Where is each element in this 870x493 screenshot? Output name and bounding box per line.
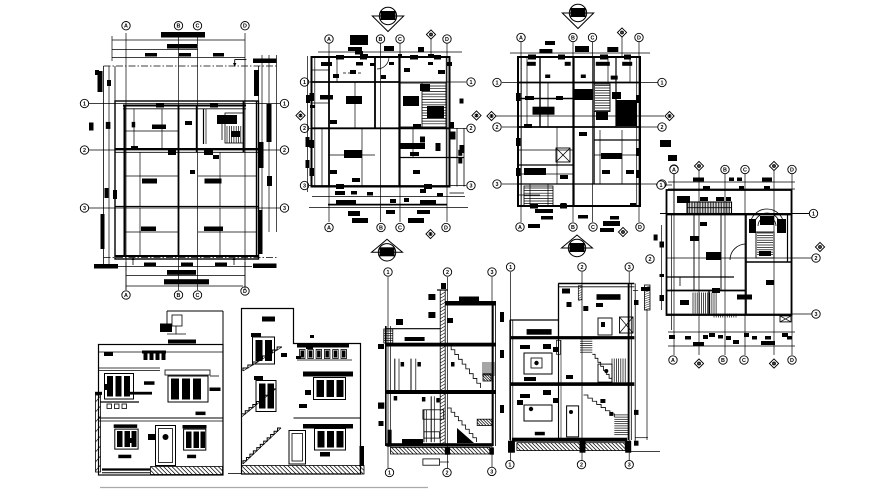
svg-text:3: 3 xyxy=(628,265,631,271)
svg-text:2: 2 xyxy=(580,463,583,469)
plan1 left side annotation bars xyxy=(101,214,105,249)
svg-text:A: A xyxy=(518,225,522,231)
plan4 grid verticals xyxy=(673,174,675,355)
plan3 right annotation line xyxy=(673,173,675,214)
elev2 upper small-window row xyxy=(297,344,349,348)
plan2 extra interior thin lines xyxy=(336,57,338,82)
plan4 grid bubbles top xyxy=(670,165,678,173)
svg-text:B: B xyxy=(571,35,575,41)
sec2 tower hatch column xyxy=(578,286,582,300)
sec2 lower dark bar xyxy=(535,432,545,436)
plan3 interior vertical walls xyxy=(539,57,541,127)
sec1 mid wall cap xyxy=(437,289,448,291)
plan3 room text labels xyxy=(601,153,622,159)
elev2 mid window xyxy=(256,381,276,412)
plan2 dashed line closet xyxy=(343,72,362,74)
svg-text:2: 2 xyxy=(470,126,473,132)
sec2 upper door box xyxy=(598,364,612,382)
svg-text:2: 2 xyxy=(283,148,286,154)
svg-text:A: A xyxy=(672,167,676,173)
sec1 ground slab xyxy=(386,443,491,446)
sec2 tower left wall xyxy=(558,284,560,341)
plan1 entry arrows xyxy=(132,258,134,265)
plan2 top band extra blobs xyxy=(333,74,339,78)
plan4 top dimension xyxy=(668,181,795,183)
plan1 interior thin lines xyxy=(133,109,135,149)
plan3 dark service blob xyxy=(573,89,593,100)
elev1 tower box xyxy=(160,324,172,333)
plan2 outer walls xyxy=(312,57,450,187)
svg-text:2: 2 xyxy=(446,270,449,276)
plan2 door arc xyxy=(377,57,389,69)
plan3 bottom diamond xyxy=(618,227,627,236)
svg-text:D: D xyxy=(790,167,794,173)
sec1 left volume top xyxy=(386,328,440,330)
sec1 stair louver hatch upper xyxy=(482,362,495,364)
plan1 grid bubbles right xyxy=(280,99,288,107)
elev1 vent window row xyxy=(142,351,166,354)
elev1 left boundary hatched pier xyxy=(96,395,101,472)
svg-text:1: 1 xyxy=(496,80,499,86)
elev2 mid-right lintel xyxy=(303,372,353,377)
sec2 ground slab xyxy=(512,438,627,442)
plan1 top-right corner bracket xyxy=(234,60,236,67)
plan4 top band text row xyxy=(680,197,690,201)
sec2 lower door xyxy=(567,406,579,437)
plan2 staircase block xyxy=(400,83,447,127)
plan1 bottom dimension lines xyxy=(118,266,252,268)
sec1 grid bubbles bottom xyxy=(385,468,393,476)
plan1 inner wall top horizontal xyxy=(123,105,246,107)
sec1 lower room floor bar xyxy=(402,439,423,444)
plan3 grid bubbles bottom xyxy=(516,223,524,231)
plan3 top band text blobs xyxy=(527,62,536,66)
elev2 right edge hatch xyxy=(360,446,365,466)
plan1 right terrace bar xyxy=(254,70,259,96)
plan2 side diamonds xyxy=(296,111,305,120)
svg-text:1: 1 xyxy=(661,80,664,86)
sec2 right ground line xyxy=(630,451,660,453)
sec2 grid stems xyxy=(510,272,512,461)
plan4 bottom-left stair hatch xyxy=(692,293,694,314)
plan3 crossed duct box xyxy=(556,148,570,162)
svg-text:3: 3 xyxy=(628,463,631,469)
plan3 staircase treads xyxy=(594,84,610,112)
svg-text:C: C xyxy=(591,35,595,41)
elev1 three squares xyxy=(107,404,112,409)
plan1 outer building wall xyxy=(115,101,259,259)
plan4 wall upper-left xyxy=(667,276,735,278)
sec1 left wall xyxy=(385,326,387,446)
svg-text:B: B xyxy=(571,225,575,231)
plan1 terrace band top xyxy=(114,66,116,101)
svg-text:1: 1 xyxy=(303,80,306,86)
svg-text:1: 1 xyxy=(660,183,663,189)
svg-text:C: C xyxy=(743,167,747,173)
sec1 right wall xyxy=(492,301,494,446)
svg-text:2: 2 xyxy=(661,125,664,131)
svg-text:B: B xyxy=(721,358,725,364)
elev2 door xyxy=(289,431,306,465)
plan4 top diamonds xyxy=(694,161,703,170)
plan4 bottom dimension text xyxy=(669,335,675,339)
plan2 north arrow xyxy=(379,7,396,24)
faint title text row bottom xyxy=(100,487,428,489)
svg-text:B: B xyxy=(723,167,727,173)
sec1 below-ground box xyxy=(423,459,440,465)
elev1 window W2 big xyxy=(165,370,210,375)
plan4 wall row1 xyxy=(667,214,792,216)
svg-text:C: C xyxy=(398,37,402,43)
plan4 bottom diamonds xyxy=(694,359,703,368)
plan2 bottom diamond xyxy=(426,229,435,238)
sec1 text bar upper room xyxy=(405,337,425,341)
plan1 bottom dimension text xyxy=(144,263,156,267)
sec2 room lower bed xyxy=(524,405,552,421)
plan2 grid bubbles left xyxy=(300,78,308,86)
sec2 grid bubbles bottom xyxy=(506,460,514,468)
plan4 porch side bars xyxy=(777,219,786,233)
plan2 grid verticals xyxy=(328,43,330,222)
plan3 outer walls xyxy=(518,57,640,206)
sec2 lower stair ladder xyxy=(614,414,629,416)
elev1 floor band xyxy=(99,367,161,369)
plan4 left margin bars xyxy=(654,235,658,241)
sec1 roof slab right volume xyxy=(445,301,496,306)
svg-text:C: C xyxy=(196,293,200,299)
plan3 bottom rooms thin lines xyxy=(529,184,531,206)
elev2 stairs flight B xyxy=(242,389,276,417)
plan1 right annotation verticals xyxy=(261,55,263,232)
plan2 grid bubbles bottom xyxy=(325,223,333,231)
plan1 plot boundary dash-dot top xyxy=(104,65,278,67)
plan4 grid horizontals xyxy=(660,213,810,215)
plan1 bottom dimension bars xyxy=(94,264,118,269)
svg-text:2: 2 xyxy=(496,125,499,131)
svg-text:C: C xyxy=(398,225,402,231)
sec2 lower stair steps xyxy=(584,395,615,417)
svg-text:A: A xyxy=(519,35,523,41)
sec1 upper stair steps xyxy=(448,345,481,388)
svg-text:C: C xyxy=(591,225,595,231)
sec2 mid wall xyxy=(558,340,560,438)
plan2 wall window sill marks xyxy=(336,55,344,60)
elev2 ground line extension xyxy=(228,473,242,475)
elev2 mid floor line xyxy=(294,417,361,419)
sec1 mid hatched wall xyxy=(440,290,445,446)
svg-text:A: A xyxy=(327,225,331,231)
sec1 left annex bar xyxy=(378,344,384,349)
svg-text:D: D xyxy=(638,225,642,231)
sec2 room labels xyxy=(520,345,530,349)
sec2 left part top xyxy=(510,319,558,321)
svg-text:3: 3 xyxy=(283,206,286,212)
svg-text:B: B xyxy=(379,37,383,43)
sec1 lower stair steps xyxy=(448,408,477,442)
plan3 grid horizontals xyxy=(502,82,658,84)
svg-text:2: 2 xyxy=(83,148,86,154)
plan3 grid bubbles top xyxy=(517,33,525,41)
sec1 footings xyxy=(445,447,450,454)
plan3 top dimension text xyxy=(539,49,552,54)
sec2 upper stair railing hatch xyxy=(611,359,613,383)
elev2 window right-low xyxy=(315,429,346,451)
svg-text:2: 2 xyxy=(581,265,584,271)
plan4 interior walls xyxy=(667,290,747,292)
svg-text:A: A xyxy=(671,358,675,364)
elev1 parapet step lines xyxy=(99,351,224,353)
sec2 slab level2 xyxy=(510,382,635,386)
elev1 small marks xyxy=(196,412,206,416)
plan3 grid bubbles left xyxy=(493,78,501,86)
plan2 room text labels xyxy=(321,62,332,66)
sec2 footings xyxy=(508,441,515,453)
plan1 right annotation bars xyxy=(253,59,277,64)
sec2 ground hatch xyxy=(517,443,625,451)
plan2 plot line left xyxy=(307,56,309,192)
elev1 roof tower xyxy=(167,310,223,312)
elev2 small labels xyxy=(306,345,313,349)
plan4 window hatch band top xyxy=(687,202,732,214)
plan3 interior horizontal walls xyxy=(518,82,640,84)
sec2 room upper bed xyxy=(524,353,552,374)
plan4 grid bubbles bottom xyxy=(669,356,677,364)
plan3 extra interior thin lines xyxy=(526,57,528,127)
svg-text:2: 2 xyxy=(303,126,306,132)
sec2 tower X window xyxy=(620,317,634,333)
sec1 grid bubbles top xyxy=(384,268,392,276)
plan3 stair core dark xyxy=(616,100,637,126)
sec2 lower stair marks xyxy=(600,399,605,403)
sec2 left wall xyxy=(509,320,511,440)
svg-text:B: B xyxy=(177,24,181,30)
plan1 inner wall mid horizontal xyxy=(115,148,259,150)
sec1 upper door frames xyxy=(394,359,396,393)
sec1 slab level2 xyxy=(386,390,496,394)
svg-text:1: 1 xyxy=(470,80,473,86)
sec1 stair hatch patch lower xyxy=(477,419,492,425)
elev2 stairs flight A xyxy=(243,347,282,371)
elev2 window right-mid xyxy=(314,378,346,400)
elev1 mid ledge xyxy=(99,417,224,419)
sec2 left margin bars xyxy=(500,312,504,322)
svg-text:D: D xyxy=(243,24,247,30)
plan2 grid horizontals xyxy=(309,81,466,83)
svg-text:3: 3 xyxy=(470,183,473,189)
plan2 bed furniture xyxy=(346,96,362,104)
plan4 right diamond xyxy=(815,242,824,251)
svg-text:3: 3 xyxy=(491,270,494,276)
elev1 door D1 xyxy=(156,426,176,466)
plan2 grid bubbles right xyxy=(467,78,475,86)
sec2 top dark beam xyxy=(597,294,621,300)
svg-text:1: 1 xyxy=(83,101,86,107)
sec2 hatch column mid-left xyxy=(557,340,561,354)
svg-text:3: 3 xyxy=(815,312,818,318)
svg-text:2: 2 xyxy=(649,257,652,263)
plan1 stair arrow xyxy=(221,118,223,140)
elev2 left upper window xyxy=(253,337,275,364)
sec1 lower door frames xyxy=(423,410,425,442)
plan1 interior vertical walls xyxy=(124,105,126,256)
svg-text:C: C xyxy=(196,24,200,30)
plan1 bottom wall xyxy=(115,255,259,257)
elev2 outline xyxy=(242,309,361,475)
plan1 dashdot bottom xyxy=(104,257,278,259)
plan2 porch lines right xyxy=(456,128,458,186)
svg-text:1: 1 xyxy=(387,270,390,276)
svg-text:3: 3 xyxy=(303,183,306,189)
plan4 bed blob xyxy=(706,252,721,260)
elev2 right-low lintel xyxy=(303,424,353,429)
svg-text:3: 3 xyxy=(490,469,493,475)
plan1 door window marks xyxy=(131,146,138,150)
elev1 left plinth xyxy=(102,468,150,470)
sec2 right wall xyxy=(628,284,630,441)
plan1 grid bubbles top xyxy=(122,22,130,30)
plan1 grid bubbles bottom xyxy=(122,291,130,299)
svg-text:A: A xyxy=(327,37,331,43)
plan4 room labels xyxy=(737,295,752,300)
svg-text:1: 1 xyxy=(509,265,512,271)
sec2 right wall2 xyxy=(634,284,636,441)
sec1 ground hatch xyxy=(391,447,490,454)
sec2 right margin hatched column xyxy=(645,285,651,310)
sec1 parapet bar xyxy=(459,297,479,302)
plan1 top dimension text xyxy=(161,32,205,38)
plan4 entry step box bottom right xyxy=(780,316,791,322)
elev1 window W4 xyxy=(183,425,207,429)
svg-text:2: 2 xyxy=(815,256,818,262)
plan4 entry porch curved steps xyxy=(754,213,780,226)
svg-text:1: 1 xyxy=(812,211,815,217)
plan2 south arrow xyxy=(378,244,395,261)
plan4 door arc mid xyxy=(730,244,746,260)
svg-text:D: D xyxy=(445,37,449,43)
svg-text:D: D xyxy=(790,358,794,364)
sec2 tower door box xyxy=(598,318,612,335)
sec2 shelf bar upper xyxy=(527,329,552,335)
svg-text:D: D xyxy=(637,35,641,41)
plan2 right margin blobs xyxy=(460,99,464,104)
elev1 outline xyxy=(99,345,224,476)
sec1 left ladder window xyxy=(384,329,393,343)
plan3 grid bubbles right xyxy=(658,78,666,86)
plan1 wall at grid row3 xyxy=(115,206,259,208)
svg-text:3: 3 xyxy=(496,182,499,188)
svg-text:C: C xyxy=(742,358,746,364)
elev1 ground hatch xyxy=(151,467,223,475)
sec2 grid bubbles top xyxy=(506,263,514,271)
svg-text:B: B xyxy=(177,293,181,299)
sec2 tower roof xyxy=(558,283,634,285)
plan1 row grid horizontals xyxy=(89,103,280,105)
plan1 grid bubbles left xyxy=(80,99,88,107)
plan3 bottom-left stair treads xyxy=(524,186,553,206)
svg-text:B: B xyxy=(379,225,383,231)
elev1 window W1 left xyxy=(105,374,134,400)
svg-text:1: 1 xyxy=(388,470,391,476)
svg-text:A: A xyxy=(124,293,128,299)
sec2 tower marks xyxy=(567,302,572,307)
svg-text:2: 2 xyxy=(446,470,449,476)
plan1 left gate bar xyxy=(98,71,103,92)
elev1 left small window xyxy=(104,352,113,356)
sec2 slab level1 xyxy=(510,336,635,339)
plan2 interior horizontal walls xyxy=(312,81,400,83)
plan4 left bubble xyxy=(657,181,665,189)
plan1 column grid verticals xyxy=(125,33,127,290)
plan3 grid verticals xyxy=(520,42,522,222)
plan2 top dimension text xyxy=(350,35,368,45)
elev2 ground hatch xyxy=(242,466,365,475)
plan3 bottom dimension text xyxy=(535,209,553,213)
plan4 right bubbles xyxy=(809,209,817,217)
plan1 staircase hatch xyxy=(225,113,244,143)
plan3 top diamond xyxy=(617,28,626,37)
plan2 top diamond marker xyxy=(426,30,435,39)
plan2 grid bubbles top xyxy=(325,35,333,43)
svg-text:1: 1 xyxy=(283,101,286,107)
svg-text:D: D xyxy=(444,225,448,231)
plan2 side annotation bars xyxy=(306,137,310,147)
sec1 mid wall blobs xyxy=(428,294,435,300)
plan4 bottom window hatch xyxy=(713,314,715,318)
elev1 window W2 lintel xyxy=(168,340,196,344)
elev1 window W1 sill xyxy=(100,401,139,403)
plan1 top dimension lines xyxy=(112,39,245,41)
elev2 stairs flight C xyxy=(243,428,281,464)
plan3 south arrow xyxy=(568,239,585,256)
sec1 diag patch upper xyxy=(483,374,491,381)
svg-text:A: A xyxy=(124,24,128,30)
sec1 slab level1 xyxy=(386,343,496,347)
plan3 bed furniture xyxy=(533,107,555,115)
plan1 room label texts xyxy=(152,125,166,130)
plan3 right margin bars xyxy=(660,140,671,147)
plan2 interior vertical walls xyxy=(328,57,330,187)
plan4 table blob xyxy=(759,251,771,256)
svg-text:3: 3 xyxy=(83,206,86,212)
elev1 window W3 xyxy=(114,424,138,428)
plan3 left diamond xyxy=(487,111,496,120)
plan4 left row bubble xyxy=(646,255,654,263)
plan4 stair lower xyxy=(756,232,774,258)
plan3 wall window sill marks xyxy=(528,55,536,60)
elev2 top label xyxy=(262,317,275,322)
plan2 bottom dimension rows xyxy=(312,196,465,198)
plan3 right diamond xyxy=(665,111,674,120)
svg-text:1: 1 xyxy=(508,463,511,469)
sec1 grid stems xyxy=(387,277,389,468)
sec2 upper stair ladder xyxy=(580,338,592,340)
plan4 outer walls xyxy=(667,190,792,315)
plan3 north arrow xyxy=(569,4,586,21)
sec2 upper stair steps xyxy=(592,354,612,382)
plan1 left edge mark xyxy=(95,70,99,75)
plan1 plot boundary left verticals xyxy=(103,66,105,268)
